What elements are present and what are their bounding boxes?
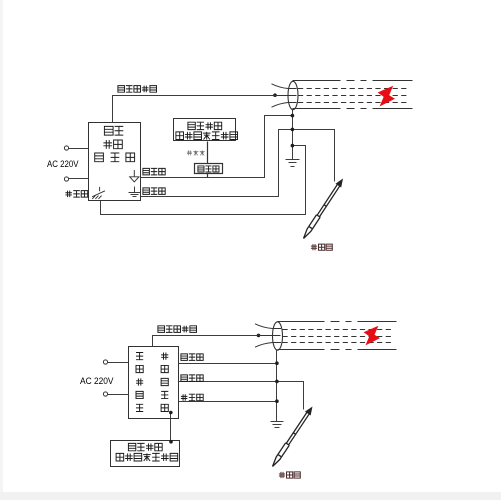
svg-text:AC 220V: AC 220V [47,159,79,169]
svg-text:AC 220V: AC 220V [80,376,114,386]
